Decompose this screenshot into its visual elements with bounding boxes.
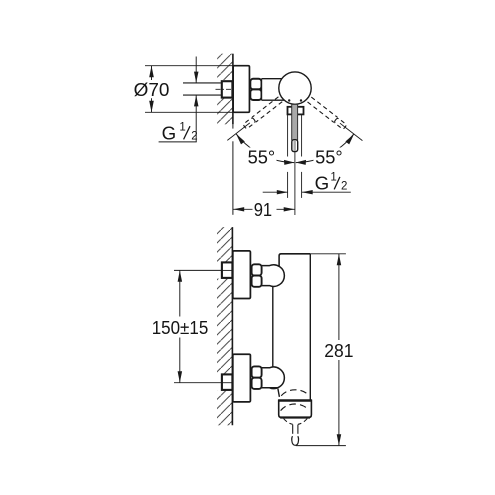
G 1/2 outlet dimension (right) [263, 191, 288, 193]
spout tube [292, 425, 294, 434]
escutcheons [233, 251, 251, 299]
svg-text:Ø70: Ø70 [134, 79, 170, 100]
dashed lever rotated right 55 [308, 97, 365, 143]
screw dots [288, 99, 290, 101]
handle silhouette / G1/2 outlet extension lines [287, 114, 289, 156]
valve body neck (plan) [262, 79, 296, 101]
wall hatching [217, 227, 232, 425]
escutcheon (plan) [233, 66, 249, 113]
wall line [231, 227, 233, 425]
shower outlet cup [279, 400, 312, 417]
connector hex nut (plan) [250, 79, 261, 90]
svg-text:2: 2 [341, 181, 347, 193]
svg-text:2: 2 [191, 131, 197, 143]
svg-text:91: 91 [254, 199, 272, 220]
angle arc right [296, 134, 354, 163]
svg-text:281: 281 [324, 340, 353, 361]
55 ray right [340, 123, 363, 140]
lever collar [288, 107, 304, 115]
55 ray left [227, 123, 250, 140]
union cones [262, 265, 285, 287]
hatch hole for supply pipe [217, 80, 233, 99]
lever shaft [292, 104, 298, 140]
150 +/- 15 dimension [179, 271, 181, 317]
wall extension line down to 91 dim [232, 124, 234, 128]
dashed lever rotated left 55 [225, 97, 282, 143]
Ø70 dimension [151, 66, 153, 80]
svg-text:G: G [162, 122, 177, 143]
G 1/2 upper dimension [195, 57, 197, 83]
union nut behind wall [222, 81, 233, 97]
collar thick line [278, 399, 312, 402]
svg-text:1: 1 [330, 171, 336, 183]
svg-text:G: G [315, 172, 330, 193]
supply centre lines / 150 extension lines [174, 269, 232, 271]
dashed funnel to spout [284, 419, 293, 425]
angle arc left [236, 134, 294, 163]
body [273, 254, 311, 400]
lever tip [292, 140, 298, 152]
connector hex nuts [252, 264, 262, 275]
svg-text:55°: 55° [315, 147, 343, 168]
white backing + 55 deg labels [246, 148, 277, 167]
wall line [232, 54, 234, 125]
91 dimension [233, 208, 252, 210]
arc arrowheads outer [236, 134, 245, 145]
wall hatching (plan view) [217, 54, 233, 125]
dashed arc in cup [281, 404, 309, 411]
svg-text:1: 1 [179, 122, 185, 134]
Ø70 extension lines [145, 65, 233, 67]
pipe centre line [216, 88, 232, 90]
union nuts behind wall [222, 262, 233, 278]
centre lines through wall nuts [222, 269, 232, 271]
svg-text:55°: 55° [248, 147, 276, 168]
svg-text:150±15: 150±15 [152, 317, 209, 338]
arc arrowheads bottom [284, 160, 295, 165]
outlet centre line [294, 152, 296, 215]
dashed dome arc above collar [281, 390, 308, 396]
supply pipe G1/2 [183, 82, 223, 84]
281 dimension [310, 253, 346, 255]
round cartridge housing (plan) [279, 72, 311, 104]
